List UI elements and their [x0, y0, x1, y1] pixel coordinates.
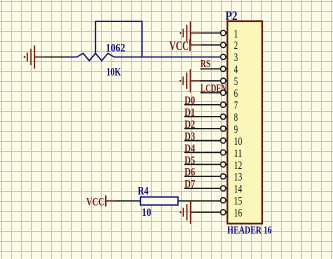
svg-text:D3: D3: [185, 131, 196, 143]
svg-text:10K: 10K: [106, 67, 121, 79]
svg-text:HEADER 16: HEADER 16: [227, 225, 272, 236]
svg-text:8: 8: [234, 112, 238, 124]
svg-text:5: 5: [234, 76, 238, 88]
svg-text:D5: D5: [185, 155, 196, 167]
svg-text:D0: D0: [185, 95, 196, 107]
svg-text:D7: D7: [185, 179, 196, 191]
svg-text:16: 16: [234, 208, 242, 220]
svg-text:4: 4: [234, 64, 238, 76]
svg-text:RS: RS: [200, 58, 210, 70]
svg-text:2: 2: [234, 40, 238, 52]
svg-text:9: 9: [234, 124, 238, 136]
svg-text:VCC: VCC: [169, 39, 189, 53]
svg-text:10: 10: [142, 207, 152, 219]
svg-text:14: 14: [234, 184, 242, 196]
svg-text:R4: R4: [138, 186, 149, 198]
svg-text:10: 10: [234, 136, 242, 148]
svg-text:13: 13: [234, 172, 242, 184]
svg-text:VCC: VCC: [86, 195, 104, 209]
svg-text:D4: D4: [185, 143, 196, 155]
svg-text:6: 6: [234, 88, 238, 100]
svg-text:11: 11: [234, 148, 242, 160]
svg-text:12: 12: [234, 160, 242, 172]
svg-text:D6: D6: [185, 167, 196, 179]
svg-text:1: 1: [234, 28, 238, 40]
svg-text:P2: P2: [225, 8, 237, 23]
svg-text:3: 3: [234, 52, 238, 64]
svg-text:D1: D1: [185, 107, 196, 119]
svg-text:15: 15: [234, 196, 242, 208]
svg-text:7: 7: [234, 100, 238, 112]
svg-text:1062: 1062: [106, 43, 126, 55]
svg-text:D2: D2: [185, 119, 196, 131]
